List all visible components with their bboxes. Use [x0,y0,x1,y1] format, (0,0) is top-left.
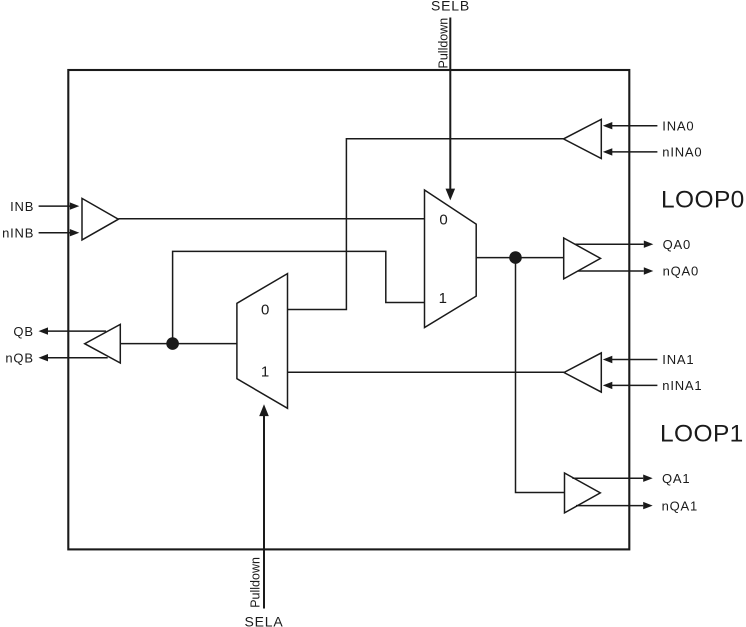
label QB [13,324,33,339]
port arrow nQA0 [578,267,653,274]
label SELA [245,614,284,627]
buffer INA0 [564,119,602,158]
label INA0 [662,118,694,133]
node B junction dot [166,337,179,350]
svg-text:LOOP0: LOOP0 [661,186,745,213]
block boundary box [68,70,629,549]
node A junction dot [509,251,522,264]
buffer INB [82,198,118,240]
svg-text:1: 1 [439,290,447,307]
arrowhead SELB into mux U1 [446,189,456,201]
label nQA0 [663,264,699,279]
wire node A down to QA1 buffer [516,258,565,493]
svg-text:nINA0: nINA0 [662,145,702,160]
wire INA0 output to U2 input 0 [288,139,564,310]
wire QB feedback loop to U1 input 1 [173,251,425,343]
wire U2 output to QB buffer [120,343,237,345]
label INA1 [662,352,694,367]
arrowhead SELA into mux U2 [259,404,269,416]
buffer QA1 [565,473,601,513]
label nQB [5,350,33,365]
port arrow nINA0 [603,148,658,155]
wire U1 output to QA0 buffer [476,257,564,259]
svg-text:0: 0 [439,212,447,229]
port arrow INA1 [603,356,658,363]
pin label 0 of U1 [439,212,447,229]
label nINB [2,225,34,240]
label QA1 [662,471,690,486]
svg-text:INA0: INA0 [662,118,694,133]
svg-text:nQB: nQB [5,350,33,365]
buffer QB [85,324,121,363]
svg-text:LOOP1: LOOP1 [660,420,744,447]
port arrow INA0 [603,122,658,129]
svg-text:nQA0: nQA0 [663,264,699,279]
svg-text:nQA1: nQA1 [662,498,698,513]
svg-text:SELA: SELA [245,614,284,627]
svg-text:Pulldown: Pulldown [436,18,450,69]
svg-text:INA1: INA1 [662,352,694,367]
label INB [10,199,34,214]
svg-text:1: 1 [261,363,269,380]
label SELB [431,0,470,13]
port arrow QA0 [575,241,653,248]
port arrow nQA1 [576,502,653,509]
buffer QA0 [564,238,601,279]
buffer INA1 [564,353,601,392]
mux U2 (SELA mux) [237,274,288,409]
svg-text:0: 0 [261,302,269,319]
svg-text:nINA1: nINA1 [662,378,702,393]
port arrow QB [39,327,107,334]
wire INA1 output to U2 input 1 [288,371,565,373]
port arrow nQB [39,354,108,361]
pin label 1 of U1 [439,290,447,307]
label Pulldown (top, rotated) [436,18,450,69]
port arrow INB [39,202,80,209]
svg-text:INB: INB [10,199,34,214]
wire SELB select stem [449,18,451,191]
svg-text:SELB: SELB [431,0,470,13]
port arrow QA1 [572,475,652,482]
pin label 0 of U2 [261,302,269,319]
label QA0 [663,237,691,252]
label LOOP1 [660,420,744,447]
label nINA1 [662,378,702,393]
wire INB output to U1 input 0 [118,218,424,220]
port arrow nINA1 [603,382,658,389]
label nINA0 [662,145,702,160]
label Pulldown (bottom, rotated) [249,557,263,608]
label nQA1 [662,498,698,513]
svg-text:QA1: QA1 [662,471,690,486]
svg-text:Pulldown: Pulldown [249,557,263,608]
svg-text:nINB: nINB [2,225,34,240]
label LOOP0 [661,186,745,213]
port arrow nINB [39,229,80,236]
svg-text:QB: QB [13,324,33,339]
pin label 1 of U2 [261,363,269,380]
mux U1 (SELB mux) [425,190,477,328]
svg-text:QA0: QA0 [663,237,691,252]
wire SELA select stem [263,415,265,609]
